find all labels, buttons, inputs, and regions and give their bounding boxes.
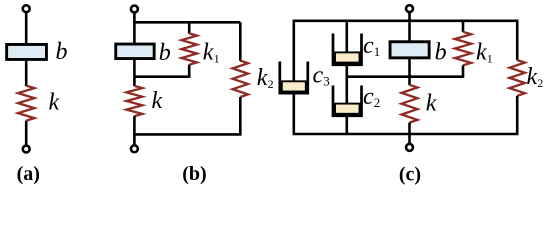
wire k2-to-bottom-rail (c) xyxy=(516,96,519,134)
svg-text:(c): (c) xyxy=(399,164,421,186)
wire junction rail (c) xyxy=(347,75,463,78)
svg-text:(a): (a) xyxy=(17,163,40,185)
node bottom terminal (a) xyxy=(23,146,30,153)
svg-text:k: k xyxy=(49,90,60,116)
svg-text:k: k xyxy=(203,40,214,66)
svg-text:(b): (b) xyxy=(182,163,206,185)
dashpot c3 xyxy=(280,62,308,94)
wire b-to-k crossing junction (b) xyxy=(133,59,136,86)
wire junction rail (b) xyxy=(134,75,189,78)
wire rail-to-k2 (c) xyxy=(516,21,519,60)
wire circle stem (b) xyxy=(133,13,136,22)
svg-text:k: k xyxy=(476,40,487,66)
spring k (c) xyxy=(402,85,418,123)
svg-text:c: c xyxy=(363,84,374,110)
wire bottom rail (c) xyxy=(293,133,519,136)
wire bottom circle stem (c) xyxy=(408,134,411,143)
spring k (b) xyxy=(126,86,142,116)
svg-text:2: 2 xyxy=(374,95,381,110)
damper b (c) xyxy=(390,42,429,58)
damper b (b) xyxy=(116,44,154,59)
svg-text:1: 1 xyxy=(374,44,381,59)
dashpot c1 xyxy=(333,34,362,65)
wire rail-to-k1 (b) xyxy=(188,22,191,33)
wire k1-to-junction (b) xyxy=(188,65,191,78)
wire top rail (b) xyxy=(133,21,240,24)
svg-text:2: 2 xyxy=(268,77,274,91)
wire c3-to-bottom-rail xyxy=(292,93,295,134)
dashpot c2 xyxy=(333,86,362,116)
node top terminal (a) xyxy=(23,5,30,12)
svg-text:3: 3 xyxy=(323,74,330,89)
wire rail-to-k2 (b) xyxy=(239,22,242,61)
spring k1 (c) xyxy=(455,32,471,66)
wire bottom circle stem (b) xyxy=(133,134,136,144)
svg-text:b: b xyxy=(56,39,68,65)
wire c3 piston rod xyxy=(292,21,295,82)
svg-text:1: 1 xyxy=(214,52,220,66)
wire rail-to-b (c) xyxy=(408,21,411,42)
wire k-to-bottom-rail (c) xyxy=(408,123,411,134)
spring k1 (b) xyxy=(182,33,197,64)
wire c2-to-bottom-rail xyxy=(345,116,348,134)
svg-text:b: b xyxy=(159,40,171,66)
wire k2-to-bottom-rail (b) xyxy=(239,97,242,134)
wire b-to-k (a) xyxy=(25,60,28,86)
wire rail-to-k1 (c) xyxy=(462,21,465,32)
wire rail-to-b (b) xyxy=(133,22,136,43)
svg-text:k: k xyxy=(527,64,538,90)
node bottom terminal (c) xyxy=(406,144,413,151)
wire b-to-k crossing junction (c) xyxy=(408,58,411,85)
node top terminal (c) xyxy=(406,5,413,12)
svg-text:k: k xyxy=(257,65,268,91)
wire c1-to-c2 crossing junction xyxy=(345,65,348,104)
wire bottom rail (b) xyxy=(133,133,241,136)
spring k2 (b) xyxy=(233,61,248,97)
svg-text:b: b xyxy=(435,39,447,65)
damper b (a) xyxy=(7,44,47,59)
node bottom terminal (b) xyxy=(131,145,138,152)
wire top rail (c) xyxy=(293,19,519,22)
svg-text:2: 2 xyxy=(537,76,543,90)
spring k2 (c) xyxy=(510,60,525,96)
wire k1-to-junction (c) xyxy=(462,65,465,78)
node top terminal (b) xyxy=(131,6,138,13)
wire circle stem (c) xyxy=(408,13,411,21)
spring k (a) xyxy=(18,86,34,121)
svg-text:k: k xyxy=(426,91,437,117)
svg-text:k: k xyxy=(152,88,163,114)
svg-text:c: c xyxy=(363,33,374,59)
wire k-to-bottom-rail (b) xyxy=(133,116,136,134)
svg-text:c: c xyxy=(313,62,324,88)
wire bottom stem (a) xyxy=(25,121,28,145)
svg-text:1: 1 xyxy=(487,52,493,66)
wire top stem (a) xyxy=(25,13,28,44)
wire c1 piston rod xyxy=(345,21,348,53)
